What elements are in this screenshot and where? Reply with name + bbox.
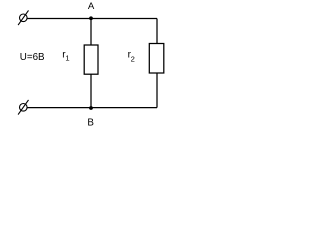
wire top horizontal (27, 18, 157, 20)
wire r1 down to bottom wire (90, 74, 92, 107)
terminal top-left (phi symbol) (18, 10, 28, 25)
svg-text:2: 2 (131, 55, 135, 64)
terminal bottom-left (phi symbol) (18, 100, 28, 115)
wire bottom horizontal (27, 107, 157, 109)
svg-text:U=6B: U=6B (20, 52, 45, 63)
node A junction dot (89, 16, 93, 20)
wire r2 down to bottom wire (156, 73, 158, 108)
svg-text:B: B (87, 118, 94, 129)
resistor r2 (149, 44, 164, 74)
svg-text:1: 1 (65, 53, 69, 62)
wire right vertical (top wire to r2) (156, 19, 158, 44)
resistor r1 (84, 45, 98, 74)
svg-text:A: A (88, 1, 95, 12)
node B junction dot (89, 106, 93, 110)
wire node A down to r1 (90, 19, 92, 46)
